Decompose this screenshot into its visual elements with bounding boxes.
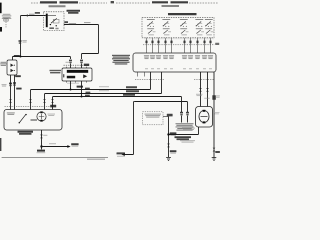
pin number speck x146.5	[145, 68, 148, 69]
switch position label OFF	[49, 27, 54, 29]
motor connector ref C101	[50, 105, 56, 108]
terminal on L3 drop	[51, 99, 54, 103]
aux box stub wire	[163, 116, 167, 118]
label WASHER PUMP line2	[177, 138, 190, 140]
module stub pins top	[67, 67, 87, 68]
text right of ground wire	[215, 95, 219, 97]
label at arrow HVAC	[71, 143, 78, 145]
switch wafer group 2	[162, 19, 171, 35]
connector ref text right of W1	[22, 40, 27, 42]
label G200	[170, 150, 177, 152]
text below pump ground wire	[180, 140, 195, 142]
inline label on right ground wire	[212, 95, 216, 100]
dashed continuation below fuse	[5, 22, 7, 28]
aux stub to ground chain	[167, 116, 169, 118]
motor connector dashed row C101	[5, 106, 51, 108]
pin number speck x190.5	[189, 68, 192, 69]
switch wafer group 1	[147, 19, 156, 35]
front wiper motor box	[4, 110, 62, 131]
park contact 2	[25, 114, 26, 115]
switch contact box	[53, 19, 59, 23]
ref below S200	[170, 134, 176, 137]
connector on gov wire A	[9, 83, 12, 87]
label WASHER PUMP line1	[175, 136, 192, 138]
splice ref on L3 right	[123, 94, 135, 96]
governor box	[7, 60, 17, 75]
switch arm diagonal	[51, 18, 57, 23]
terminal on wire A	[9, 99, 12, 103]
washer pump box	[196, 107, 213, 128]
pin number speck x204.5	[203, 68, 206, 69]
fuse box F9	[4, 19, 8, 21]
wire code stack at pin x158.5	[156, 55, 161, 59]
column housing box	[133, 53, 216, 72]
arrowhead off-page L4	[121, 153, 124, 156]
ground symbol right	[212, 158, 217, 161]
header subtitle INTERMITTENT (A)	[49, 5, 66, 7]
motor cross	[39, 114, 44, 119]
label on pump wire 1	[196, 94, 203, 96]
motor ground wire	[41, 130, 43, 147]
rule under feed label	[2, 17, 12, 19]
wiper switch connector bar	[46, 14, 48, 28]
wire code stack at pin x171.5	[169, 55, 174, 59]
footer page ref	[87, 159, 105, 160]
ground branch to HVAC	[42, 146, 68, 148]
junction L3 module	[81, 96, 83, 98]
pin number speck x171.5	[170, 68, 173, 69]
terminal label 18B	[43, 134, 47, 137]
pump brush top	[203, 110, 206, 112]
inline label on L3	[85, 95, 90, 97]
wire W1 feed to switch	[21, 16, 46, 58]
terminal on ground chain B	[167, 144, 170, 148]
pump wire 1 from housing	[200, 72, 202, 107]
ref text below arrow label	[72, 145, 79, 148]
governor output wire B	[14, 75, 16, 110]
terminal mark on pin x197.5	[196, 41, 198, 44]
pin number speck x152.5	[151, 68, 154, 69]
terminal on pump wire 2	[206, 88, 209, 92]
switch internal feed	[48, 15, 56, 17]
pump brush bottom	[203, 121, 206, 123]
washer pump motor circle	[199, 111, 209, 123]
column connector dashed row	[143, 44, 215, 46]
sheet background	[0, 0, 220, 165]
label WIPER SWITCH line1	[67, 10, 81, 12]
terminal on L1 drop	[29, 99, 32, 103]
text left of gov wires	[2, 84, 7, 86]
text above pump ground wire	[182, 128, 195, 130]
governor internal arrow 1	[11, 64, 14, 67]
pin number specks above row	[144, 37, 214, 40]
junction W1/W3	[20, 56, 22, 58]
junction L2 cross	[81, 93, 82, 94]
header title 88 XJ WIPERS (A)	[40, 1, 57, 3]
module internal triangle	[83, 74, 87, 78]
pin number speck x158.5	[157, 68, 160, 69]
connector on L4 drop	[186, 112, 189, 116]
line L1 motor feed	[31, 72, 151, 110]
housing ground wire right	[213, 72, 215, 158]
terminal on L2 drop	[43, 99, 46, 103]
ground stub down	[41, 147, 43, 150]
wire code stack at pin x204.5	[202, 55, 207, 59]
pump wire 2 from housing	[207, 72, 209, 107]
label FUSED IGNITION SWITCH OUTPUT	[2, 14, 12, 18]
wire label 20 LB on W2	[69, 23, 77, 24]
wire label 18 LB near governor top	[14, 55, 20, 57]
inline label on L1	[85, 88, 90, 90]
ref below G200	[170, 152, 176, 155]
terminal on motor ground	[40, 135, 43, 139]
housing stub pin 1	[137, 72, 139, 77]
terminal mark on pin x165.5	[164, 41, 166, 44]
module internal bar 2	[67, 76, 75, 79]
wire label 18 LB below module	[77, 86, 83, 88]
wire code stack at pin x146.5	[144, 55, 149, 59]
header subtitle INTERMITTENT (B)	[162, 5, 180, 7]
header rule right B	[189, 2, 218, 4]
terminal mark on pin x152.5	[151, 41, 153, 44]
ref 8W-15-3	[37, 152, 46, 153]
text right of motor circle	[48, 114, 56, 116]
connector on module input right	[80, 60, 83, 64]
governor contact top	[14, 65, 15, 66]
header rule left B	[116, 2, 151, 4]
switch wafer group 5	[205, 19, 214, 35]
connector on L3 drop	[180, 112, 183, 116]
intermittent wipe module box	[62, 68, 92, 81]
module output left to L1	[70, 81, 72, 90]
pin number speck x165.5	[164, 68, 167, 69]
pin number speck x210.5	[209, 68, 212, 69]
connector row dashed C126	[64, 64, 84, 66]
splice ref on L2 right	[126, 90, 139, 92]
header title AJ VEHICLES (A)	[60, 1, 79, 3]
wiper washer switch dashed box	[142, 17, 214, 38]
L3 L4 drops continue	[182, 116, 188, 123]
line L2 motor feed	[45, 72, 162, 110]
park switch label	[7, 112, 15, 115]
wire label 18 LB mid	[16, 88, 21, 90]
label at L4 arrow	[117, 152, 126, 154]
housing dashed row left	[135, 79, 164, 81]
label on pump wire 2	[204, 97, 209, 100]
governor top pin wire	[12, 57, 14, 61]
wire label F20 bold	[35, 12, 40, 14]
page border bar bottom-left	[0, 138, 1, 151]
label G100	[37, 150, 45, 152]
wire code stack at pin x152.5	[150, 55, 155, 59]
wire code text on L2	[99, 90, 109, 91]
terminal mark on pin x204.5	[203, 41, 205, 44]
governor output wire A	[10, 75, 12, 110]
housing dashed row right	[194, 79, 215, 81]
connector on module input left	[69, 60, 72, 64]
terminal mark on pin x190.5	[189, 41, 191, 44]
aux box text	[145, 114, 162, 118]
terminal on right ground wire	[213, 148, 216, 152]
line L4 left drop	[125, 102, 135, 155]
header rule left A	[31, 2, 107, 4]
page border bar top-left	[0, 3, 2, 14]
module output right to L3	[81, 81, 83, 97]
header title AJ VEHICLES (B)	[171, 1, 189, 3]
connector on gov wire B	[13, 82, 16, 86]
switch contact dot 1	[50, 24, 51, 25]
label INTERMITTENT WIPE WASH MODULE	[112, 55, 130, 65]
footer rule sheet A	[2, 157, 108, 159]
terminal on pump wire 1	[199, 88, 202, 92]
connector ref right of row	[215, 43, 219, 45]
wiper switch dashed box	[44, 12, 65, 31]
accessory destination text stack	[176, 123, 194, 130]
wire label 18W bold on W2	[64, 21, 68, 23]
splice ref on L1 right	[126, 86, 137, 88]
ground junction G100	[40, 145, 42, 147]
governor contact bottom	[14, 70, 15, 71]
label S200	[170, 132, 177, 134]
terminal mark on pin x184.5	[183, 41, 185, 44]
pin number speck x184.5	[183, 68, 186, 69]
text above ground branch	[49, 143, 56, 144]
park contact 1	[19, 122, 20, 123]
label WIPER WASHER SWITCH	[168, 13, 197, 15]
motor internal text	[31, 119, 38, 121]
wire label 20 LB on W1	[29, 14, 35, 15]
terminal mark on pin x210.5	[209, 41, 211, 44]
wire W2 switch to module	[64, 25, 99, 60]
motor circle	[37, 112, 46, 121]
ground symbol B	[166, 158, 171, 161]
connector C on W1 vertical	[19, 40, 22, 44]
switch pin wires to column connector	[147, 38, 211, 53]
section mark A	[111, 1, 114, 3]
wire ref C101 on W2	[84, 22, 91, 23]
governor internal arrow 2	[11, 69, 14, 72]
wire code stack at pin x190.5	[188, 55, 193, 59]
line L3 motor feed	[53, 97, 182, 113]
connector ref C126 blob	[84, 64, 89, 66]
aux dashed box	[143, 112, 164, 125]
label G201	[215, 151, 220, 153]
line L4 washer feed	[134, 102, 187, 113]
module input wires through connector row	[71, 64, 82, 69]
wire W3 governor to module	[13, 57, 71, 60]
terminal mark on pin x158.5	[157, 41, 159, 44]
switch contact dot 2	[56, 25, 57, 26]
fuse value text	[4, 20, 7, 21]
wire code stack at pin x165.5	[163, 55, 168, 59]
wire code text on L1	[99, 86, 109, 87]
switch wafer group 3	[180, 19, 189, 35]
label at aux stub	[167, 114, 173, 117]
splice S200	[167, 133, 169, 135]
inline label on L2	[86, 92, 91, 94]
module internal tick	[63, 74, 64, 77]
pin number speck x197.5	[196, 68, 199, 69]
wire label below governor	[15, 75, 21, 77]
pin numbers above connector row	[66, 61, 69, 64]
motor brush top	[40, 111, 42, 113]
motor brush bottom	[40, 120, 42, 122]
park switch arm	[20, 115, 26, 123]
header title 88 XJ WIPERS (B)	[152, 1, 168, 3]
switch wafer group 4	[195, 19, 204, 35]
text right of pump	[214, 112, 220, 114]
wire code stack at pin x210.5	[208, 55, 213, 59]
arrowhead to HVAC	[67, 145, 70, 148]
governor label text	[0, 62, 6, 66]
housing stub pin 2	[144, 72, 146, 77]
switch position label 2	[55, 28, 58, 29]
module stub pins bottom	[67, 81, 87, 83]
pump ground wire	[169, 127, 199, 135]
page border connector B	[0, 27, 2, 32]
wire code stack at pin x197.5	[195, 55, 200, 59]
terminal mark on pin x171.5	[170, 41, 172, 44]
label FRONT WIPER MOTOR line1	[18, 131, 34, 133]
terminal mark on pin x146.5	[145, 41, 147, 44]
wire code stack at pin x184.5	[182, 55, 187, 59]
pump motor bar	[201, 116, 208, 118]
junction L1 module	[70, 89, 72, 91]
ref below L4 arrow	[117, 155, 125, 158]
label FRONT WIPER MOTOR line2	[19, 133, 32, 135]
ground chain B wire	[168, 117, 170, 158]
grommet on W1	[27, 14, 28, 16]
label WIPER SWITCH line2	[68, 12, 79, 14]
module pin labels bottom	[67, 82, 79, 85]
module internal resistor bar	[67, 70, 88, 73]
module label text left	[50, 70, 62, 74]
